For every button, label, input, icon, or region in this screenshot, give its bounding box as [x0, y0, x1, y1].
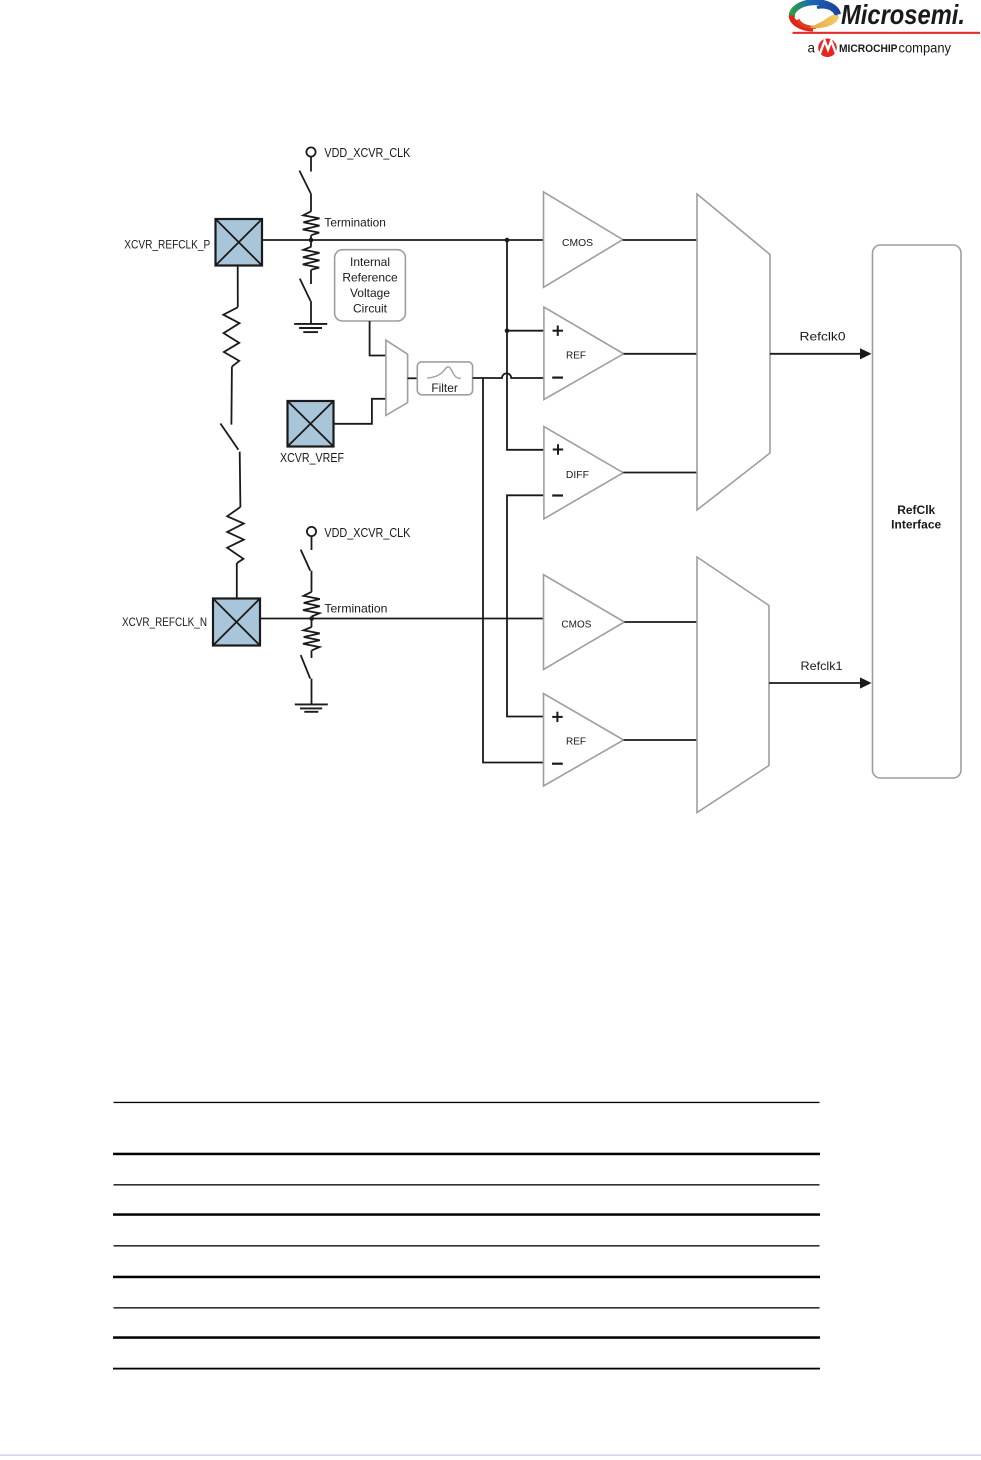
resistor termination bottom upper [303, 592, 320, 617]
wire [236, 563, 238, 599]
ground (bottom) [295, 704, 328, 711]
wire VREF drop to bottom REF- [483, 378, 544, 763]
wire [310, 235, 312, 247]
wire VREF pad to mux [334, 399, 386, 424]
junction dot [309, 616, 314, 621]
svg-text:MICROCHIP: MICROCHIP [839, 43, 898, 55]
wire [239, 452, 242, 507]
switch S3 [220, 424, 238, 450]
resistor termination top upper [303, 211, 320, 235]
box Internal Reference Voltage Circuit [335, 250, 406, 321]
wire to REF+ [507, 330, 544, 332]
table rule 9 [113, 1368, 820, 1370]
mux M2 [697, 557, 769, 813]
resistor chain lower [227, 507, 244, 563]
svg-text:a: a [808, 40, 816, 56]
svg-text:XCVR_VREF: XCVR_VREF [280, 451, 344, 465]
wire chain from P pad [237, 266, 239, 308]
wire [311, 679, 313, 705]
svg-text:Filter: Filter [431, 381, 458, 395]
wire [310, 193, 312, 211]
mux M3 (vref select) [386, 340, 408, 415]
wire [230, 367, 233, 425]
svg-text:company: company [899, 40, 952, 56]
svg-text:Interface: Interface [891, 518, 941, 532]
table rule 2 [113, 1153, 820, 1156]
svg-text:RefClk: RefClk [897, 503, 935, 517]
switch S4 [301, 550, 311, 571]
svg-text:Voltage: Voltage [350, 286, 390, 300]
wire REF to mux2 [624, 739, 697, 741]
wire [311, 617, 313, 628]
junction dot [309, 238, 314, 243]
svg-text:XCVR_REFCLK_N: XCVR_REFCLK_N [122, 615, 207, 629]
junction dot [505, 328, 510, 333]
mux M1 [697, 194, 770, 510]
switch S1 [299, 171, 310, 194]
svg-text:Internal: Internal [350, 255, 390, 269]
pad XCVR_VREF [288, 401, 334, 447]
svg-text:REF: REF [566, 349, 586, 361]
block RefClk Interface [873, 245, 962, 778]
wire XCVR_REFCLK_P net [262, 239, 544, 241]
wire IRVC to mux [370, 321, 386, 356]
svg-text:DIFF: DIFF [566, 469, 589, 481]
table rule 3 [114, 1184, 820, 1185]
wire XCVR_REFCLK_N net [260, 618, 544, 620]
wire Refclk0 with arrow [770, 353, 861, 355]
table rule 1 [114, 1102, 820, 1103]
wire DIFF to mux1 [623, 472, 697, 474]
buffer DIFF [544, 427, 623, 519]
buffer CMOS (top) [544, 192, 623, 287]
svg-text:Refclk0: Refclk0 [800, 330, 846, 344]
pin VDD_XCVR_CLK (top) [306, 147, 315, 156]
wire CMOS to mux1 [623, 239, 697, 241]
footer rule [0, 1455, 981, 1456]
Microsemi logo globe [792, 2, 840, 29]
junction dot [505, 238, 510, 243]
wire [310, 270, 312, 284]
red divider rule [793, 32, 981, 34]
resistor termination top lower [303, 247, 320, 270]
table rule 6 [113, 1276, 820, 1279]
table rule 5 [114, 1245, 820, 1246]
svg-text:VDD_XCVR_CLK: VDD_XCVR_CLK [324, 526, 411, 540]
pad XCVR_REFCLK_P [216, 219, 263, 266]
svg-text:CMOS: CMOS [561, 619, 591, 631]
wire [311, 650, 313, 658]
wire REF to mux1 [624, 353, 697, 355]
wire [310, 301, 312, 324]
svg-text:Circuit: Circuit [353, 302, 388, 316]
switch S2 [300, 279, 311, 302]
wire VREF net with hop [473, 373, 544, 378]
resistor chain upper [223, 307, 239, 366]
wire [311, 536, 313, 550]
svg-text:CMOS: CMOS [562, 237, 593, 249]
table rule 4 [113, 1213, 820, 1216]
table rule 7 [114, 1307, 820, 1308]
wire N feed vertical [507, 495, 544, 716]
svg-text:Microsemi.: Microsemi. [841, 0, 965, 30]
filter box [417, 362, 472, 395]
svg-text:Reference: Reference [342, 271, 398, 285]
pin VDD_XCVR_CLK (bottom) [307, 527, 316, 536]
table rule 8 [113, 1336, 820, 1339]
svg-text:XCVR_REFCLK_P: XCVR_REFCLK_P [124, 238, 210, 252]
svg-text:REF: REF [566, 735, 586, 747]
wire [311, 571, 313, 592]
resistor termination bottom lower [303, 627, 320, 650]
switch S5 [301, 655, 311, 679]
buffer CMOS (bottom) [544, 575, 625, 670]
buffer REF (top) [544, 307, 624, 400]
wire [310, 157, 312, 172]
pad XCVR_REFCLK_N [213, 599, 260, 646]
svg-text:Termination: Termination [324, 216, 386, 230]
buffer REF (bottom) [544, 694, 624, 787]
wire mux to filter [408, 377, 418, 379]
ground (top) [294, 324, 327, 332]
Microchip M icon [818, 38, 838, 57]
svg-text:Refclk1: Refclk1 [801, 659, 843, 673]
wire CMOS to mux2 [624, 621, 697, 623]
wire Refclk1 with arrow [769, 682, 861, 684]
svg-text:Termination: Termination [324, 602, 387, 616]
wire P feed vertical [507, 240, 544, 450]
svg-text:VDD_XCVR_CLK: VDD_XCVR_CLK [324, 146, 411, 160]
